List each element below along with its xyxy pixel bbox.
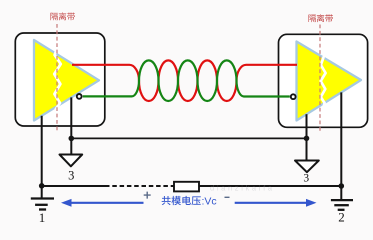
isolation amplifier box U2 (right): [279, 34, 368, 127]
inverting bubble on U2 input (right): [291, 94, 296, 99]
isolation boundary dashed line (left): [56, 24, 58, 133]
isolation barrier zigzag (right): [321, 57, 326, 110]
signal ground symbol 3 (right): [295, 161, 319, 173]
signal ground symbol 3 (left): [60, 155, 83, 167]
junction at earth ground 1: [39, 183, 45, 189]
common-mode voltage arrow (left half): [71, 202, 144, 204]
svg-text::Vc: :Vc: [202, 195, 217, 207]
svg-text:3: 3: [68, 168, 74, 182]
plus sign: [144, 192, 151, 199]
label 隔离带 (right): [308, 15, 315, 23]
earth ground 1: [31, 197, 54, 199]
wire: signal ground interconnect (node 3 rail): [71, 137, 306, 139]
wire: red signal conductor (twisted pair): [72, 60, 297, 101]
wire: U1 to earth ground 1: [41, 116, 43, 198]
wire: green signal conductor (twisted pair): [83, 60, 290, 101]
common-mode voltage arrow (right half): [235, 202, 307, 204]
wire: ground rail solid right segment: [199, 185, 341, 187]
wire: U2 to earth ground 2: [340, 92, 342, 199]
svg-text:3: 3: [303, 172, 309, 184]
op-amp U2 triangle: [297, 42, 362, 121]
isolation boundary dashed line (right): [319, 25, 321, 133]
svg-text:dianzikaifa: dianzikaifa: [210, 184, 273, 193]
earth ground 2: [331, 199, 353, 201]
svg-text:2: 2: [338, 210, 345, 225]
op-amp U1 triangle: [34, 40, 99, 121]
svg-text:1: 1: [39, 210, 46, 225]
junction at earth ground 2: [339, 183, 345, 189]
wire: U2 to signal ground 3 (right): [306, 114, 308, 160]
junction at right ground-3 node: [304, 136, 310, 142]
isolation barrier zigzag (left): [54, 46, 61, 115]
label 共模电压:Vc: [162, 196, 171, 205]
wire: ground rail dashed segment: [105, 185, 174, 187]
minus sign: [225, 196, 230, 198]
inverting bubble on U1 output (left): [77, 94, 82, 99]
isolation amplifier box U1 (left): [15, 33, 105, 126]
label 隔离带 (left): [50, 13, 57, 21]
resistor R (ground impedance): [174, 182, 199, 192]
junction at left ground-3 node: [69, 136, 75, 142]
wire: ground rail solid left segment: [42, 185, 105, 187]
wire: U1 to signal ground 3 (left): [70, 97, 72, 154]
